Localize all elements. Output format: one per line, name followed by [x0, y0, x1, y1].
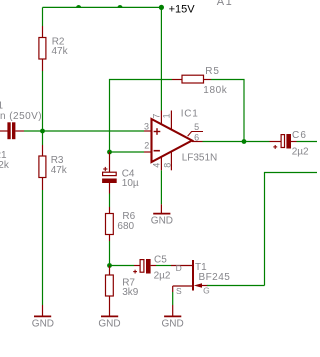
ground left — [32, 305, 54, 330]
svg-text:47k: 47k — [52, 46, 69, 57]
label C6 — [292, 130, 307, 141]
pin 7 lead — [160, 111, 162, 125]
node +15V corner junction dot — [159, 5, 164, 10]
label T1 — [195, 262, 207, 273]
label IC1 — [181, 109, 199, 120]
wire R6 to node C — [109, 241, 111, 266]
wire staircase up and right — [265, 173, 318, 286]
svg-text:3: 3 — [144, 122, 149, 132]
label 47k (R3 value) — [51, 165, 68, 176]
svg-text:7: 7 — [152, 114, 162, 119]
svg-text:680: 680 — [117, 221, 134, 232]
svg-text:180k: 180k — [203, 85, 227, 96]
node B junction dot — [107, 150, 112, 155]
wire node A down to R3 — [42, 131, 44, 145]
svg-text:R5: R5 — [205, 66, 219, 77]
pin 5 stub — [188, 132, 203, 137]
label +15V — [169, 4, 196, 16]
pin number 2 — [144, 141, 149, 151]
pin 3 lead — [144, 130, 152, 132]
wire node C to C5 — [110, 265, 135, 267]
label BF245 — [199, 272, 231, 283]
pin number 6 — [194, 132, 199, 142]
pin name G — [203, 286, 210, 296]
pin 6 output lead — [192, 141, 203, 143]
ground right — [162, 305, 184, 330]
svg-text:D: D — [176, 263, 182, 273]
label LF351N — [182, 153, 218, 164]
svg-text:IC1: IC1 — [181, 109, 199, 120]
svg-text:C5: C5 — [154, 255, 167, 266]
resistor R6 — [106, 207, 114, 241]
label C1 (clipped at left) — [0, 101, 4, 112]
pin 1 stub — [170, 111, 172, 130]
node junction half-dot on +15V rail — [76, 5, 81, 8]
pin number 7 (rotated) — [152, 114, 162, 119]
label 680 — [117, 221, 134, 232]
label 47k (R2 value) — [52, 46, 69, 57]
pin name D — [176, 263, 182, 273]
wire +15V top rail — [43, 6, 162, 8]
pin number 5 — [194, 122, 199, 132]
label 180k — [203, 85, 227, 96]
svg-text:GND: GND — [151, 215, 173, 226]
wire R5 right down to output node — [211, 80, 244, 142]
ground op-amp — [151, 204, 173, 226]
ground middle — [98, 316, 120, 329]
svg-text:1: 1 — [162, 113, 172, 118]
label C5 — [154, 255, 167, 266]
label 2µ2 (C6 value) — [292, 146, 309, 157]
op-amp plus input marker — [154, 128, 161, 135]
wire pin2 to node B — [110, 151, 145, 153]
label 10µ — [122, 178, 139, 189]
svg-text:2µ2: 2µ2 — [292, 146, 309, 157]
wire from +15V rail down to R2 — [42, 7, 44, 26]
label 3k9 — [122, 287, 139, 298]
wire C4 to R6 — [109, 194, 111, 208]
wire T1 source down — [172, 286, 174, 305]
svg-text:GND: GND — [162, 319, 184, 330]
pin number 4 (rotated) — [152, 163, 162, 168]
svg-text:S: S — [176, 286, 182, 296]
svg-text:G: G — [203, 286, 210, 296]
op-amp minus input marker — [154, 150, 160, 152]
wire R2 bottom to node A — [42, 71, 44, 131]
wire C5 to T1 drain — [156, 265, 171, 267]
node A junction dot — [40, 129, 45, 134]
capacitor C1 (edge, partially visible) — [0, 122, 24, 139]
resistor R7 — [106, 266, 114, 317]
wire node A to op-amp pin 3 — [43, 130, 145, 132]
label R6 — [122, 211, 135, 222]
wire T1 gate to staircase — [207, 285, 265, 287]
wire feedback: node B up and right to R5 — [110, 80, 173, 153]
svg-text:47k: 47k — [51, 165, 68, 176]
svg-text:GND: GND — [98, 319, 120, 330]
resistor R2 — [39, 26, 46, 71]
svg-text:22k: 22k — [0, 160, 10, 171]
svg-text:5: 5 — [194, 122, 199, 132]
label R5 — [205, 66, 219, 77]
transistor T1 BF245 — [171, 260, 208, 291]
pin number 3 — [144, 122, 149, 132]
capacitor C4 — [102, 152, 117, 194]
label 2µ2 (C5 value) — [154, 271, 171, 282]
resistor R5 — [172, 75, 211, 83]
node junction half-dot on +15V rail 2 — [117, 5, 122, 8]
svg-text:LF351N: LF351N — [182, 153, 218, 164]
pin number 8 (rotated) — [162, 163, 172, 168]
node C junction dot — [107, 263, 112, 268]
wire pin 4 to ground — [160, 170, 162, 204]
svg-text:2µ2: 2µ2 — [154, 271, 171, 282]
wire output to C6 — [203, 141, 270, 143]
svg-text:10µ: 10µ — [122, 178, 139, 189]
svg-text:4: 4 — [152, 163, 162, 168]
label R3 — [51, 155, 64, 166]
op-amp U1 triangle — [152, 119, 193, 162]
label R2 — [52, 37, 65, 48]
label R7 — [122, 278, 135, 289]
label 22k (clipped at left) — [0, 160, 10, 171]
label 100n (250V) (clipped at left) — [0, 111, 42, 122]
wire C1 to node A — [24, 130, 41, 132]
pin name S — [176, 286, 182, 296]
capacitor C5 — [133, 259, 156, 274]
svg-text:100n (250V): 100n (250V) — [0, 111, 42, 122]
label R1 (clipped at left) — [0, 150, 7, 161]
wire R3 bottom to ground — [42, 190, 44, 305]
pin 2 lead — [144, 151, 152, 153]
wire C6 right to edge — [297, 141, 318, 143]
svg-text:A1: A1 — [217, 0, 233, 8]
svg-text:+15V: +15V — [169, 4, 196, 16]
label C4 — [122, 169, 135, 180]
svg-text:C1: C1 — [0, 101, 4, 112]
pin 7 wire from +15V rail — [160, 7, 162, 110]
capacitor C6 — [270, 134, 297, 149]
svg-text:3k9: 3k9 — [122, 287, 139, 298]
pin 8 stub — [170, 151, 172, 170]
svg-text:GND: GND — [32, 319, 54, 330]
svg-text:2: 2 — [144, 141, 149, 151]
pin number 1 (rotated) — [162, 113, 172, 118]
svg-text:C6: C6 — [292, 130, 307, 141]
node output junction dot — [242, 139, 247, 144]
svg-text:BF245: BF245 — [199, 272, 231, 283]
pin 4 lead — [160, 157, 162, 171]
resistor R3 — [39, 145, 46, 190]
svg-text:8: 8 — [162, 163, 172, 168]
label A1 (clipped at top) — [217, 0, 233, 8]
